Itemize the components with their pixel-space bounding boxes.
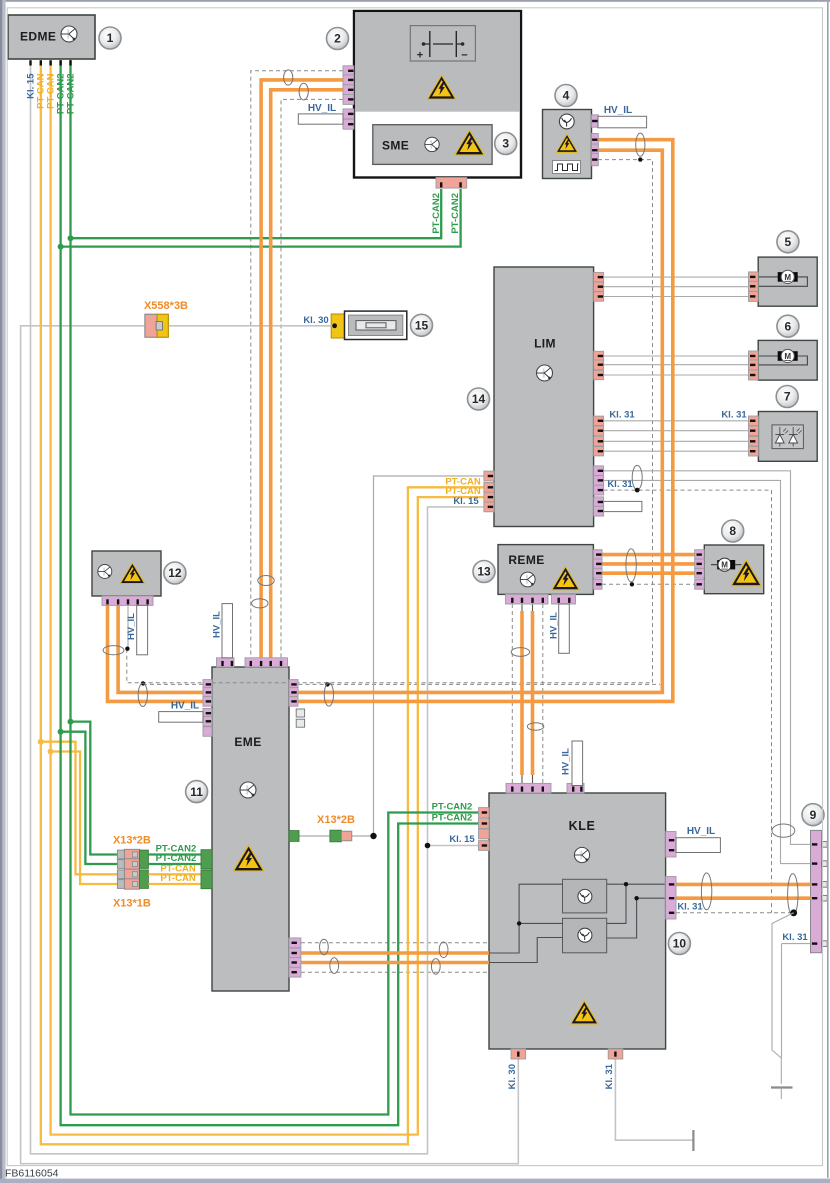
wire shield dashed REME pin4 to comp8 pin4 bbox=[602, 583, 695, 585]
svg-text:10: 10 bbox=[673, 937, 687, 951]
connector LIM right purple blocks group D bbox=[594, 466, 604, 476]
svg-text:M: M bbox=[784, 273, 791, 282]
wire LIM to fan 6 line2 bbox=[604, 364, 749, 366]
connector comp7 salmon blocks bbox=[749, 416, 759, 426]
shield oval LIM KI.31 with dot bbox=[632, 465, 642, 489]
wire KLE internal relay wiring bbox=[489, 884, 563, 953]
svg-text:14: 14 bbox=[472, 392, 486, 406]
svg-text:Kl. 31: Kl. 31 bbox=[677, 901, 703, 912]
callout circle 13 bbox=[473, 561, 495, 583]
shield oval on EME top pair 1 bbox=[258, 576, 274, 586]
svg-text:8: 8 bbox=[729, 524, 736, 538]
svg-text:X13*2B: X13*2B bbox=[317, 814, 355, 826]
wire PT-CAN inner: EDME pin3 down, bottom, up x=417.8 to LIM bbox=[51, 60, 484, 1135]
wire PT-CAN X13 row4 to EME bbox=[148, 883, 201, 885]
motor symbol comp6 bbox=[758, 355, 778, 357]
control unit EDME (1) box bbox=[8, 15, 95, 59]
wire HV orange REME bottom to KLE top pin right bbox=[532, 598, 534, 611]
wire LIM right lower gray to comp9 pin2 bbox=[604, 480, 811, 863]
connector LIM right salmon blocks groups A B C bbox=[594, 272, 604, 281]
wire shield dashed horizontal bus y=683 comp12 to x=652.5 bbox=[127, 649, 653, 683]
connector comp4 right purple blocks bbox=[592, 115, 599, 127]
wire LIM to heater 7 line2 bbox=[604, 430, 749, 432]
svg-text:KLE: KLE bbox=[569, 819, 596, 833]
junction dot (373.5,836) bbox=[370, 833, 376, 839]
EDME pin ticks and pin labels bbox=[29, 60, 31, 65]
svg-text:HV_IL: HV_IL bbox=[171, 701, 199, 712]
svg-text:HV_IL: HV_IL bbox=[308, 103, 336, 114]
svg-text:PT-CAN2: PT-CAN2 bbox=[432, 813, 473, 824]
junction dot PT-CAN (50.6,751.5) bbox=[48, 749, 54, 755]
connector comp5 salmon blocks bbox=[749, 272, 759, 282]
charging unit KLE (10) box bbox=[489, 793, 666, 1049]
svg-text:1: 1 bbox=[107, 31, 114, 45]
connector comp9 pin ticks bbox=[812, 843, 817, 845]
callout circle 6 bbox=[777, 315, 799, 337]
wire PT-CAN branch to X13*1B row4 bbox=[51, 752, 118, 885]
fuse (15) with KL. 30 bbox=[331, 314, 344, 338]
connector EME top pink blocks bbox=[217, 658, 235, 667]
svg-text:LIM: LIM bbox=[534, 337, 556, 351]
connector component (9) strip bbox=[811, 830, 822, 952]
shield oval on SME-EME pair upper bbox=[284, 70, 293, 85]
junction dot KLE internal (519.1,923.4) bbox=[517, 921, 521, 925]
svg-text:4: 4 bbox=[563, 89, 570, 103]
motor symbol comp8 bbox=[711, 564, 717, 566]
electric heater (7) box bbox=[758, 412, 817, 462]
connector REME bottom pink blocks bbox=[506, 594, 549, 604]
shield oval comp12 pair at EME entry bbox=[138, 683, 147, 706]
svg-text:Kl. 31: Kl. 31 bbox=[782, 932, 808, 943]
KLE internal relay box 2 bbox=[563, 918, 607, 953]
junction shield dot at (327.4,683.4) bbox=[325, 682, 329, 686]
KLE internal relay box 1 bbox=[563, 879, 607, 913]
junction shield dot at (143,683) bbox=[141, 681, 145, 685]
svg-text:Kl. 31: Kl. 31 bbox=[607, 479, 633, 490]
junction dot KLE internal (636.6,898.2) bbox=[634, 896, 638, 900]
svg-text:X13*1B: X13*1B bbox=[113, 897, 151, 909]
wire PT-CAN2 branch B to X13*2B row2 bbox=[61, 732, 118, 864]
callout circle 3 bbox=[495, 133, 517, 155]
warning triangle KLE bbox=[571, 1001, 598, 1024]
svg-text:M: M bbox=[721, 561, 728, 570]
wire HV orange REME right to comp8 pin2 bbox=[602, 562, 695, 566]
connector comp6 salmon blocks bbox=[749, 351, 759, 361]
junction shield dot REME-comp8 (631.9,584.3) bbox=[630, 582, 634, 586]
wire PT-CAN2 A: EDME pin5 down, bottom, up x=388.3 to KLE pin1 bbox=[71, 60, 479, 1115]
connector SME bottom salmon bbox=[436, 178, 467, 189]
callout circle 14 bbox=[468, 388, 490, 410]
wire PT-CAN2 X13 row2 to EME bbox=[148, 863, 201, 865]
wire KL. 31 from node down to ground (left path) bbox=[772, 913, 794, 1058]
connector KLE left salmon blocks bbox=[479, 808, 490, 818]
wire KL. 30: fuse 15 via X558*3B left, bottom loop, up to KLE KL. 30 pin bbox=[21, 326, 519, 1164]
shield oval on comp4 pair with dot bbox=[636, 133, 645, 156]
shield oval on EME right pair bbox=[324, 683, 333, 706]
wire shield dashed KLE right KL. 31 to node bbox=[676, 912, 794, 914]
wire LIM to fan 6 line1 bbox=[604, 355, 749, 357]
junction dot KL.31 node at comp9 (793.7,912.8) bbox=[790, 909, 797, 916]
callout circle 9 bbox=[802, 804, 824, 826]
A/C compressor (8) box bbox=[704, 545, 763, 594]
callout circle 10 bbox=[668, 933, 690, 955]
wire PT-CAN2 branch B to SME bottom pin2 bbox=[61, 189, 461, 247]
junction dot KLE internal (626,884.2) bbox=[624, 882, 628, 886]
warning triangle battery bbox=[427, 75, 455, 99]
cable loop HV_IL at SME left bbox=[298, 114, 343, 124]
heater diodes symbol comp7 bbox=[772, 425, 803, 449]
connector EME lower right purple blocks bbox=[289, 938, 301, 948]
control unit EME (11) box bbox=[212, 667, 289, 991]
svg-text:Kl. 31: Kl. 31 bbox=[604, 1063, 615, 1089]
svg-text:PT-CAN: PT-CAN bbox=[160, 873, 196, 884]
svg-text:13: 13 bbox=[477, 565, 491, 579]
svg-text:Kl. 30: Kl. 30 bbox=[303, 315, 328, 326]
callout circle 2 bbox=[327, 28, 349, 50]
callout circle 12 bbox=[164, 562, 186, 584]
cable loop HV_IL at KLE right bbox=[676, 838, 720, 853]
wire KL. 31 comp9 pin5 to ground (right path) bbox=[782, 943, 811, 945]
wire shield dashed SME pin4 to EME top pin4 bbox=[281, 99, 343, 660]
svg-text:HV_IL: HV_IL bbox=[604, 105, 632, 116]
wire KL. 15 branch to KLE left pin bbox=[428, 845, 479, 847]
wire shield dashed comp4 pin4 to EME-area shield bus bbox=[598, 160, 653, 683]
svg-text:HV_IL: HV_IL bbox=[687, 826, 715, 837]
junction dot KL. 15 (427.5,845.5) bbox=[425, 843, 431, 849]
ground symbol KLE KL.31 (vertical bar) bbox=[692, 1130, 694, 1151]
callout circle 1 bbox=[99, 27, 121, 49]
wire HV orange REME bottom to KLE top pin left bbox=[521, 598, 523, 611]
wire HV orange REME right to comp8 pin3 bbox=[602, 571, 695, 575]
square-wave icon comp4 bbox=[553, 161, 581, 174]
wire shield dashed EME lower right to KLE lower bbox=[301, 971, 489, 973]
wire LIM to heater fan 5 line3 bbox=[604, 296, 749, 298]
connector X13*2B / X13*1B stack left of EME bbox=[117, 850, 124, 859]
svg-text:11: 11 bbox=[190, 785, 203, 799]
svg-text:HV_IL: HV_IL bbox=[548, 612, 559, 639]
wire PT-CAN2 branch A to SME bottom pin1 bbox=[71, 189, 442, 238]
svg-text:−: − bbox=[461, 50, 467, 62]
svg-text:X13*2B: X13*2B bbox=[113, 834, 151, 846]
wire gray junction x=373.5 up to LIM left pin1 bbox=[374, 476, 484, 836]
shield oval on KLE-comp9 run right bbox=[788, 874, 798, 916]
wire shield dashed EME lower right to KLE upper bbox=[301, 942, 489, 944]
wire shield dashed EME left pin to bus bbox=[143, 683, 203, 685]
svg-text:15: 15 bbox=[415, 319, 429, 333]
control unit REME (13) box bbox=[498, 545, 593, 595]
wire PT-CAN2 X13 row1 to EME bbox=[148, 853, 201, 855]
svg-text:REME: REME bbox=[508, 553, 544, 567]
svg-text:FB6116054: FB6116054 bbox=[5, 1168, 59, 1180]
wire HV orange KLE right to comp9 pin4 bbox=[676, 896, 811, 900]
wire X13*2B gray EME right to junction x=373.5 bbox=[299, 835, 374, 837]
electric fan (6) box bbox=[758, 340, 817, 380]
connector green blocks on EME left edge for X13 rows bbox=[201, 850, 212, 869]
wire PT-CAN outer: EDME pin2 down, bottom, up x=407.9 to LIM bbox=[41, 60, 484, 1144]
shield oval on REME-comp8 run with dot bbox=[626, 549, 636, 582]
wire KL. 15: EDME pin down, bottom loop, up x=427.5 to LIM KL. 15 pin bbox=[31, 60, 484, 1154]
svg-text:6: 6 bbox=[785, 319, 792, 333]
cable loop HV_IL below REME bbox=[559, 604, 570, 653]
wire HV orange comp4 pin2 to EME right pin (outer) bbox=[299, 140, 673, 702]
svg-text:7: 7 bbox=[784, 390, 791, 404]
control unit SME (3) inner box bbox=[373, 125, 492, 165]
svg-text:Kl. 15: Kl. 15 bbox=[453, 496, 479, 507]
electric coolant pump (4) box bbox=[543, 110, 592, 179]
wire LIM to heater 7 line3 bbox=[604, 440, 749, 442]
cable loop HV_IL at EME left bbox=[159, 712, 203, 723]
shield oval on REME bottom pair lower bbox=[527, 723, 543, 731]
shield ovals on EME-KLE lower run bbox=[320, 939, 329, 955]
connector X13*2B inline (green+salmon) right of EME bbox=[289, 831, 299, 842]
wire LIM right lower gray to comp9 pin1 bbox=[604, 471, 811, 845]
shield oval horizontal above comp9 bbox=[772, 824, 795, 837]
shield oval on KLE-comp9 run left bbox=[701, 873, 711, 910]
shield oval on SME-EME pair lower bbox=[299, 83, 308, 100]
cable loop symbol HV_IL white rectangle at LIM lower right bbox=[604, 501, 642, 511]
wire LIM to heater fan 5 line2 bbox=[604, 286, 749, 288]
shield oval on REME bottom pair bbox=[511, 648, 529, 657]
wire KL. 31 KLE bottom to ground bbox=[615, 1049, 693, 1140]
callout circle 11 bbox=[186, 781, 208, 803]
callout circle 15 bbox=[411, 314, 433, 336]
svg-text:Kl. 15: Kl. 15 bbox=[449, 834, 475, 845]
connector REME right purple blocks bbox=[593, 550, 602, 560]
svg-text:12: 12 bbox=[168, 566, 182, 580]
svg-text:EDME: EDME bbox=[20, 30, 56, 44]
wire HV orange KLE right to comp9 pin3 bbox=[676, 883, 811, 887]
ground symbol right (bar) bbox=[771, 1086, 793, 1088]
shield oval on EME top pair 2 bbox=[252, 599, 268, 608]
callout circle 4 bbox=[555, 85, 577, 107]
electric fan (5) box bbox=[758, 257, 817, 306]
wire LIM to fan 6 line3 bbox=[604, 374, 749, 376]
svg-text:PT-CAN2: PT-CAN2 bbox=[431, 193, 442, 234]
callout circle 5 bbox=[777, 231, 799, 253]
connector EME right purple blocks bbox=[289, 680, 298, 690]
svg-text:HV_IL: HV_IL bbox=[126, 613, 137, 640]
wire shield dashed LIM KI.31 to right side down to KLE KL.31 bbox=[604, 490, 772, 913]
svg-text:X558*3B: X558*3B bbox=[144, 300, 188, 312]
wire shield dashed REME bottom pin1 to KLE top bbox=[511, 604, 513, 784]
wire HV orange comp12 pin2 to EME left pin2 bbox=[118, 605, 203, 692]
svg-text:Kl. 31: Kl. 31 bbox=[609, 409, 635, 420]
svg-text:PT-CAN2: PT-CAN2 bbox=[450, 193, 461, 234]
cable loop HV_IL at comp4 bbox=[598, 116, 647, 128]
connector comp8 left purple blocks bbox=[695, 550, 705, 560]
svg-text:Kl. 31: Kl. 31 bbox=[721, 409, 747, 420]
connector KLE top pink blocks bbox=[506, 783, 551, 793]
svg-text:HV_IL: HV_IL bbox=[211, 611, 222, 638]
svg-text:2: 2 bbox=[334, 32, 341, 46]
junction dot PT-CAN2 (70.5,721.6) bbox=[68, 719, 74, 725]
comp12 HV_IL thin wire and loop bbox=[127, 605, 129, 648]
wire PT-CAN2 branch A to X13*2B row1 bbox=[71, 722, 119, 855]
wire HV orange SME pin3 to EME top bbox=[271, 90, 343, 660]
svg-text:9: 9 bbox=[810, 808, 817, 822]
junction dot PT-CAN2 (60.6,246.6) bbox=[58, 244, 64, 250]
svg-text:5: 5 bbox=[785, 235, 792, 249]
connector EME left purple blocks bbox=[203, 680, 212, 690]
callout circle 7 bbox=[776, 386, 798, 408]
junction dot PT-CAN (40.8,741.7) bbox=[38, 739, 44, 745]
cable loop HV_IL above EME (vertical) bbox=[222, 604, 233, 658]
control unit LIM (14) box bbox=[494, 267, 594, 527]
wire LIM to heater 7 line4 bbox=[604, 450, 749, 452]
motor symbol comp5 bbox=[758, 276, 778, 278]
connector KLE bottom salmon blocks bbox=[511, 1049, 526, 1059]
svg-text:SME: SME bbox=[382, 139, 409, 153]
junction dot KL. 30 at fuse pin (334.4,325.8) bbox=[332, 323, 337, 328]
svg-text:Kl. 30: Kl. 30 bbox=[507, 1064, 518, 1089]
callout circle 8 bbox=[722, 520, 744, 542]
wire HV orange comp4 pin3 to EME right pin (inner) bbox=[299, 150, 663, 692]
wire HV orange comp12 pin1 to EME left pin3 bbox=[108, 605, 204, 701]
electric machine electronics (12) box bbox=[92, 551, 161, 596]
cable loop HV_IL above KLE (vertical) bbox=[572, 741, 583, 786]
svg-text:EME: EME bbox=[234, 735, 261, 749]
spare pin squares EME right bbox=[296, 709, 304, 717]
wire PT-CAN2 B: EDME pin4 down, bottom, up x=398.2 to KLE pin2 bbox=[61, 60, 479, 1125]
svg-text:PT-CAN2: PT-CAN2 bbox=[65, 74, 76, 115]
svg-text:+: + bbox=[417, 50, 423, 62]
connector SME left purple blocks bbox=[343, 66, 354, 76]
junction dot PT-CAN2 (70.5,238.2) bbox=[68, 235, 74, 241]
junction dot PT-CAN2 (60.6,731.7) bbox=[58, 729, 64, 735]
svg-text:HV_IL: HV_IL bbox=[561, 748, 572, 775]
wire shield dashed REME bottom pin4 to KLE top bbox=[542, 604, 544, 784]
wire KI. 31 LIM to heater 7 line1 bbox=[604, 420, 749, 422]
connector KLE right purple blocks bbox=[666, 832, 676, 858]
wire HV orange EME lower right to KLE left lower bbox=[301, 961, 489, 965]
wire HV orange EME lower right to KLE left upper bbox=[301, 951, 489, 955]
wire PT-CAN X13 row3 to EME bbox=[148, 873, 201, 875]
connector X558*3B blocks top layer bbox=[145, 314, 157, 337]
shield oval comp12 pair horizontal bbox=[103, 646, 124, 655]
connector comp12 bottom pink blocks bbox=[102, 596, 153, 605]
svg-text:PT-CAN2: PT-CAN2 bbox=[432, 802, 473, 813]
battery symbol bbox=[410, 26, 475, 61]
svg-text:M: M bbox=[784, 352, 791, 361]
wire HV orange SME pin2 to EME top (vertical pair left) bbox=[261, 80, 343, 660]
high-voltage battery unit (2) outer box bbox=[354, 11, 521, 178]
wire PT-CAN branch to X13*1B row3 bbox=[41, 742, 118, 875]
wire LIM to heater fan 5 line1 bbox=[604, 276, 749, 278]
svg-text:3: 3 bbox=[502, 137, 509, 151]
wire HV orange REME right to comp8 pin1 bbox=[602, 553, 695, 557]
connector LIM left salmon blocks bbox=[484, 471, 494, 481]
wire shield dashed SME pin1 to EME top pin1 bbox=[251, 71, 343, 660]
